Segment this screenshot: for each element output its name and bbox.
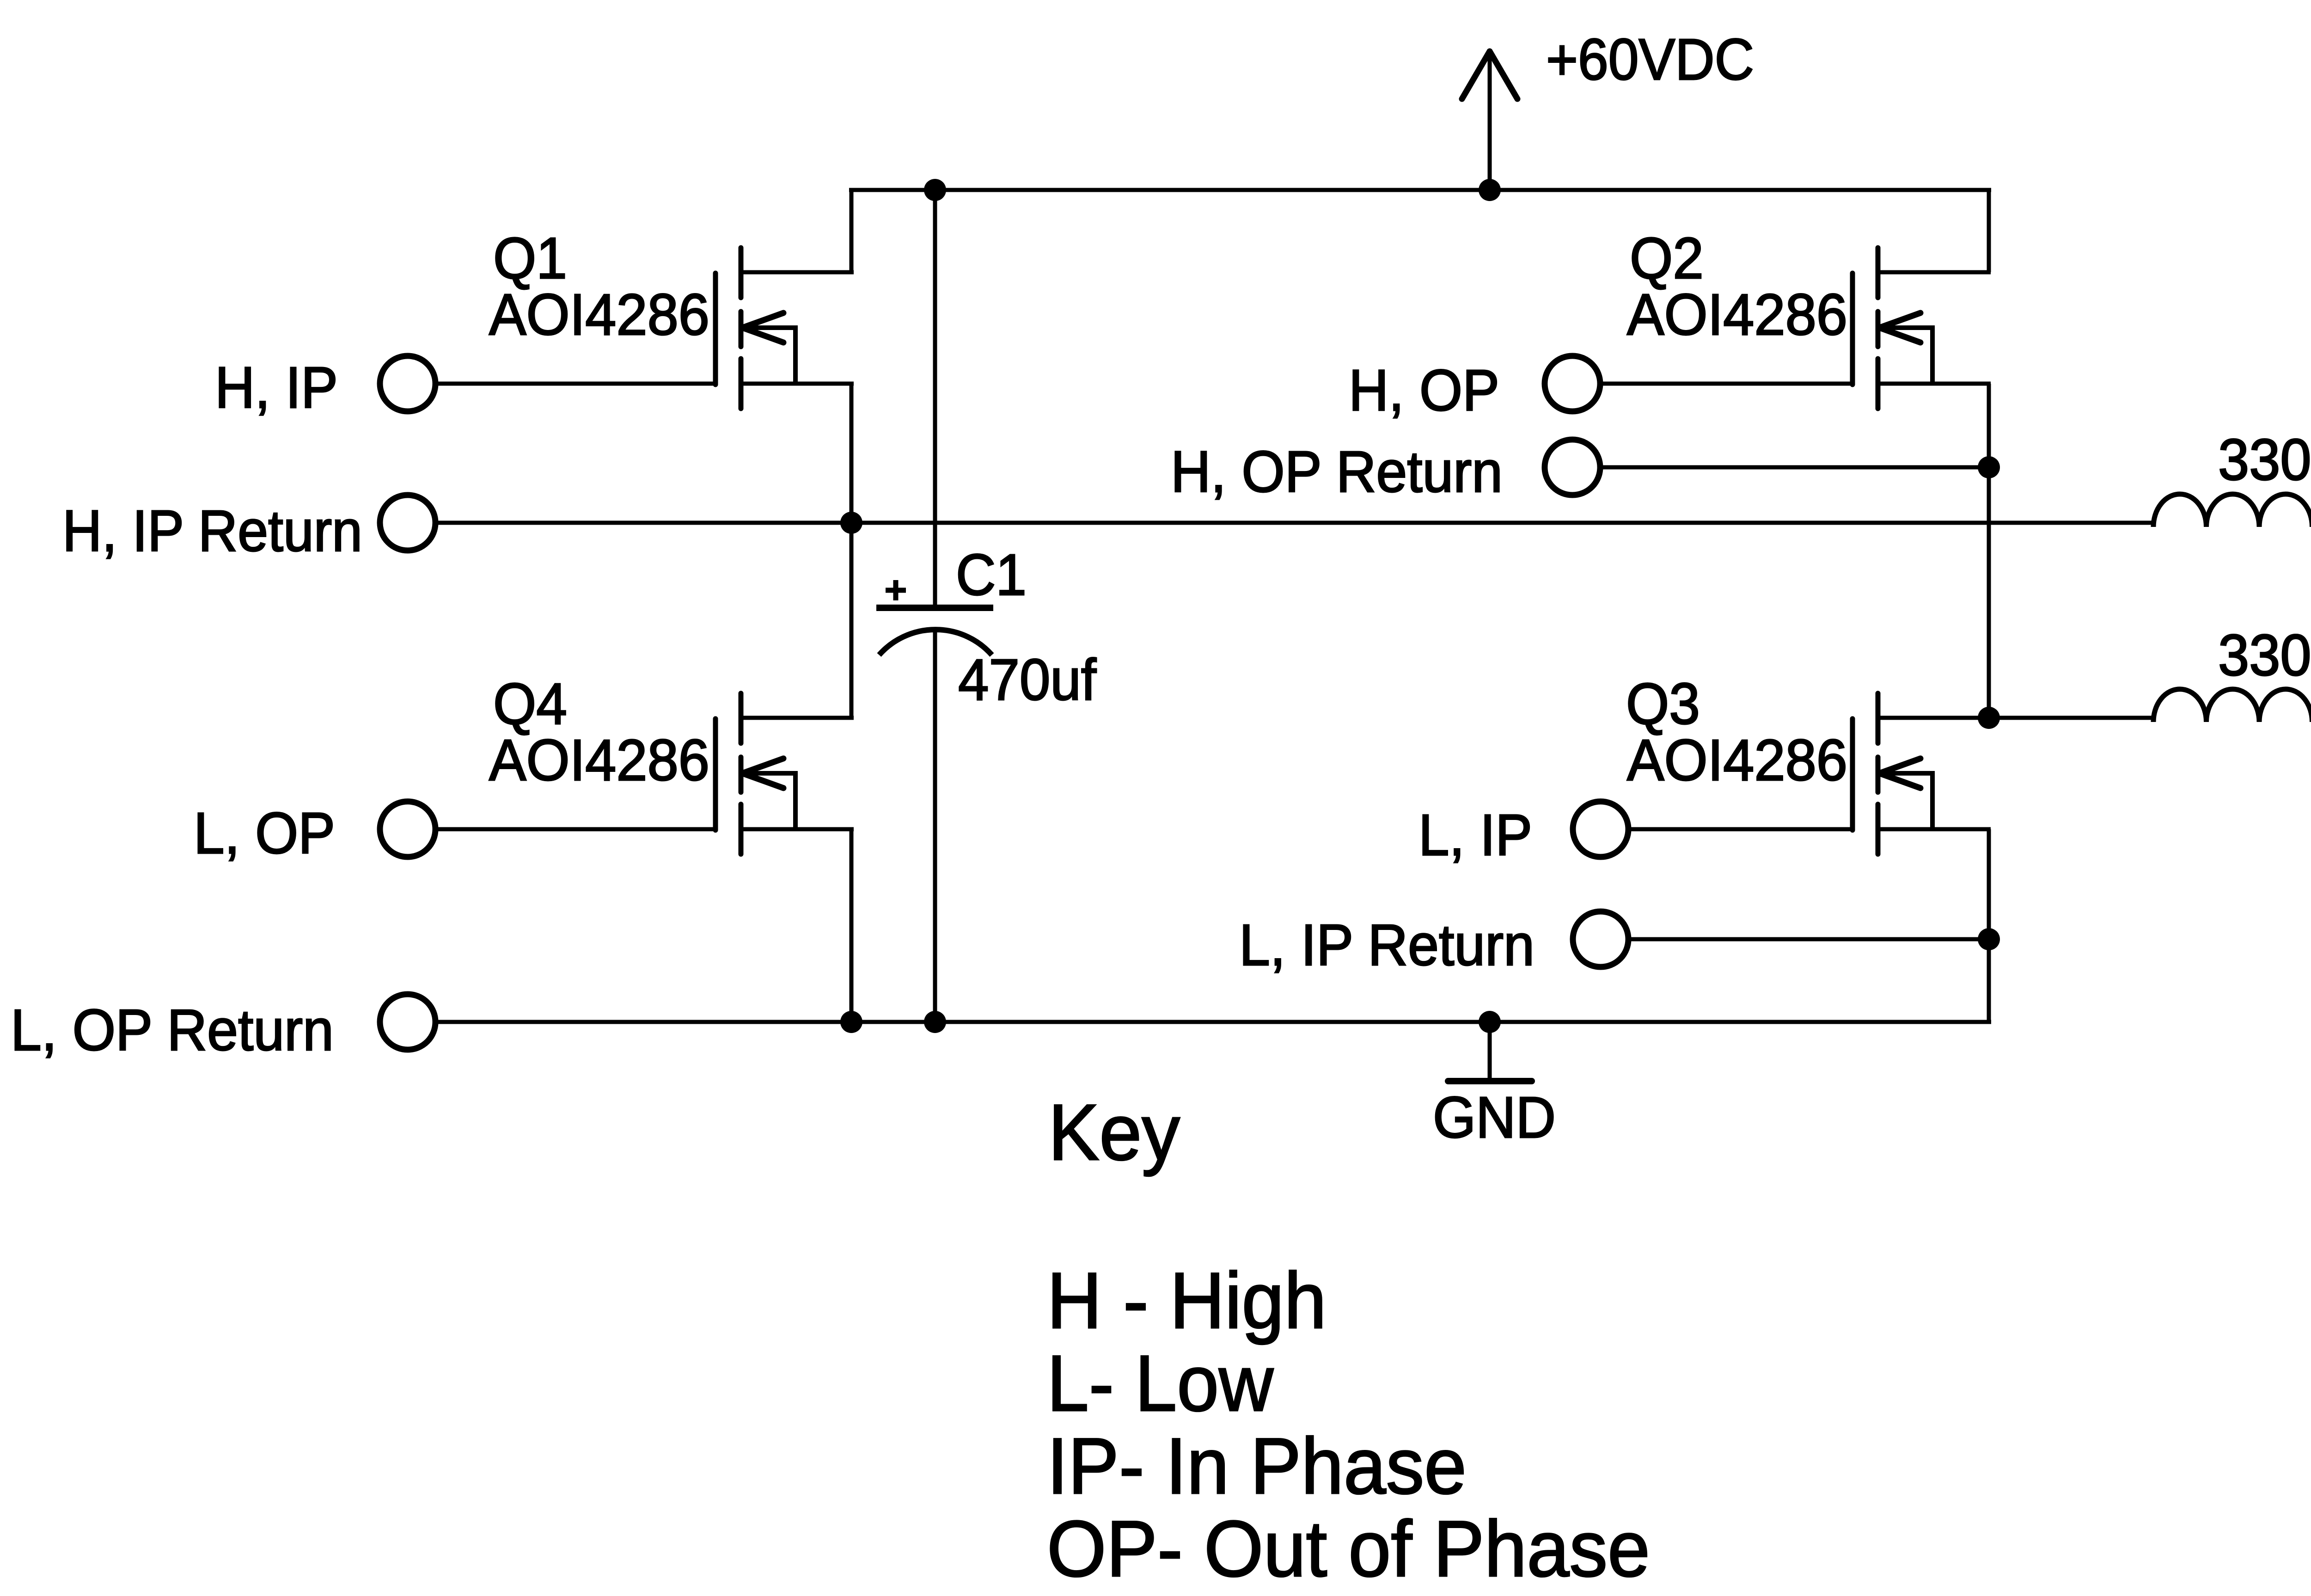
svg-text:L- Low: L- Low	[1047, 1339, 1274, 1428]
svg-text:H - High: H - High	[1047, 1256, 1327, 1345]
svg-text:H, IP Return: H, IP Return	[62, 498, 362, 563]
terminal L, OP	[380, 801, 435, 857]
node: Q1 source / H,IP Return junction	[840, 512, 862, 534]
node: Q4 source / rail junction	[840, 1011, 862, 1033]
svg-text:OP- Out of Phase: OP- Out of Phase	[1047, 1504, 1650, 1593]
svg-text:L, IP Return: L, IP Return	[1239, 912, 1535, 978]
svg-text:H, IP: H, IP	[215, 355, 338, 420]
svg-text:330uH: 330uH	[2218, 623, 2311, 688]
svg-text:IP- In Phase: IP- In Phase	[1047, 1422, 1467, 1510]
node: H,OP Return junction	[1978, 456, 2000, 478]
svg-text:L, IP: L, IP	[1418, 802, 1532, 868]
svg-text:Q2: Q2	[1630, 226, 1704, 291]
wire: L,IP gate lead	[1631, 827, 1852, 832]
svg-text:L, OP: L, OP	[194, 801, 335, 866]
wire: H,OP Return lead	[1603, 465, 1989, 470]
node: +60VDC rail tap	[1479, 179, 1501, 201]
capacitor C1	[876, 190, 993, 1022]
svg-text:Q3: Q3	[1626, 671, 1700, 736]
svg-text:C1: C1	[956, 542, 1027, 607]
svg-text:L, OP Return: L, OP Return	[11, 997, 334, 1063]
terminal L, OP Return	[380, 994, 435, 1050]
svg-text:Q4: Q4	[493, 671, 567, 736]
terminal L, IP Return	[1573, 911, 1628, 967]
svg-text:AOI4286: AOI4286	[489, 728, 709, 793]
ground GND	[1448, 1022, 1532, 1081]
wire: H,IP gate lead	[438, 382, 715, 386]
svg-text:H, OP Return: H, OP Return	[1171, 439, 1503, 504]
node: L,IP Return junction	[1978, 928, 2000, 950]
wire: L,IP Return lead	[1631, 937, 1989, 942]
wire: Q1 drain riser	[850, 190, 854, 272]
transistor Q1	[715, 248, 854, 409]
wire: Q1 source drop	[850, 384, 854, 718]
svg-text:Key: Key	[1048, 1088, 1180, 1177]
terminal L, IP	[1573, 801, 1628, 857]
wire: H,OP gate lead	[1603, 382, 1852, 386]
node: C1 bottom / rail junction	[924, 1011, 946, 1033]
svg-text:Q1: Q1	[493, 226, 567, 291]
node: GND tap junction	[1479, 1011, 1501, 1033]
node: Q2/Q3 midpoint junction	[1978, 707, 2000, 729]
wire: Q2 drain riser	[1987, 190, 1991, 272]
inductor L2 330uH	[2153, 689, 2311, 722]
wire: L,OP gate lead	[438, 827, 715, 832]
svg-text:+60VDC: +60VDC	[1546, 27, 1754, 92]
transistor Q2	[1852, 248, 1991, 409]
terminal H, IP	[380, 356, 435, 411]
transistor Q4	[715, 693, 854, 854]
power symbol +60VDC arrow	[1462, 49, 1517, 190]
node: C1 top tap	[924, 179, 946, 201]
svg-text:H, OP: H, OP	[1349, 358, 1499, 423]
svg-text:AOI4286: AOI4286	[1627, 282, 1847, 347]
transistor Q3	[1852, 693, 1991, 854]
wire: Q3 drain to L2	[1989, 716, 2153, 720]
svg-text:AOI4286: AOI4286	[489, 282, 709, 347]
svg-text:GND: GND	[1433, 1085, 1556, 1150]
wire: +60VDC top rail	[849, 188, 1991, 192]
wire: Q2 source drop	[1987, 384, 1991, 718]
wire: H,IP Return line to L1	[438, 521, 2153, 525]
terminal H, OP	[1545, 356, 1600, 411]
inductor L1 330uH	[2153, 494, 2311, 527]
svg-text:470uf: 470uf	[958, 647, 1097, 712]
wire: Q3 source drop	[1987, 829, 1991, 1022]
terminal H, IP Return	[380, 495, 435, 550]
wire: Q4 source drop	[850, 829, 854, 1022]
wire: bottom ground rail	[438, 1020, 1991, 1024]
terminal H, OP Return	[1545, 440, 1600, 495]
svg-text:AOI4286: AOI4286	[1627, 728, 1847, 793]
svg-text:330uH: 330uH	[2218, 427, 2311, 492]
